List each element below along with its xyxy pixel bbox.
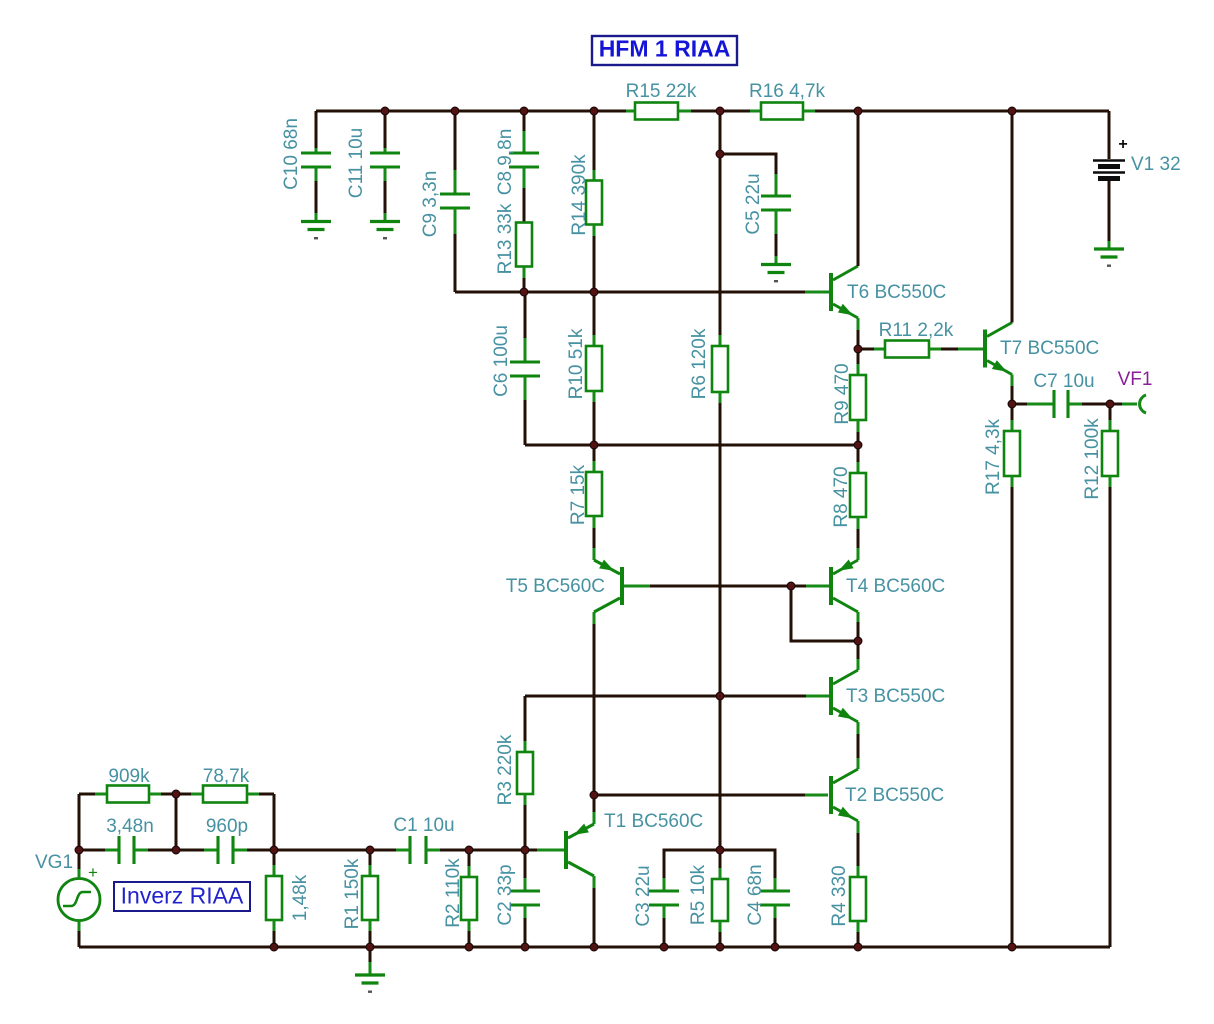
svg-text:V1 32: V1 32	[1131, 154, 1181, 175]
svg-text:R13 33k: R13 33k	[495, 203, 516, 274]
svg-text:R16 4,7k: R16 4,7k	[749, 81, 826, 102]
svg-text:VF1: VF1	[1118, 369, 1153, 390]
svg-text:R11 2,2k: R11 2,2k	[879, 320, 954, 341]
svg-text:R10 51k: R10 51k	[566, 328, 587, 399]
svg-text:+: +	[88, 863, 98, 882]
svg-text:T6 BC550C: T6 BC550C	[847, 282, 946, 303]
svg-text:R7 15k: R7 15k	[568, 464, 589, 525]
svg-text:VG1: VG1	[35, 852, 73, 873]
svg-text:R17 4,3k: R17 4,3k	[983, 418, 1004, 495]
svg-text:1,48k: 1,48k	[290, 874, 311, 921]
svg-text:960p: 960p	[206, 816, 248, 837]
svg-text:C10 68n: C10 68n	[281, 118, 302, 190]
svg-text:R3 220k: R3 220k	[495, 734, 516, 805]
svg-text:R8 470: R8 470	[831, 466, 852, 527]
svg-text:+: +	[1118, 136, 1127, 153]
svg-text:C5 22u: C5 22u	[743, 173, 764, 234]
svg-text:Inverz RIAA: Inverz RIAA	[121, 883, 244, 909]
svg-text:C9 3,3n: C9 3,3n	[420, 171, 441, 238]
svg-text:T2 BC550C: T2 BC550C	[845, 785, 944, 806]
svg-text:C7 10u: C7 10u	[1033, 371, 1094, 392]
svg-text:R6 120k: R6 120k	[689, 328, 710, 399]
svg-text:T7 BC550C: T7 BC550C	[1000, 338, 1099, 359]
svg-text:3,48n: 3,48n	[106, 816, 154, 837]
svg-text:R12 100k: R12 100k	[1082, 418, 1103, 500]
svg-text:C2 33p: C2 33p	[495, 864, 516, 925]
svg-text:C8 9,8n: C8 9,8n	[495, 129, 516, 196]
svg-text:HFM 1 RIAA: HFM 1 RIAA	[599, 36, 731, 62]
svg-text:78,7k: 78,7k	[203, 766, 250, 787]
svg-text:909k: 909k	[108, 766, 150, 787]
svg-text:T5 BC560C: T5 BC560C	[506, 576, 605, 597]
svg-text:T4 BC560C: T4 BC560C	[846, 576, 945, 597]
svg-text:R9 470: R9 470	[832, 363, 853, 424]
svg-text:T3 BC550C: T3 BC550C	[846, 686, 945, 707]
svg-text:R4 330: R4 330	[829, 865, 850, 926]
svg-text:C6 100u: C6 100u	[491, 325, 512, 397]
svg-text:C4 68n: C4 68n	[745, 864, 766, 925]
svg-text:C1 10u: C1 10u	[393, 815, 454, 836]
svg-text:C3 22u: C3 22u	[633, 865, 654, 926]
svg-text:C11 10u: C11 10u	[346, 128, 367, 198]
svg-text:T1 BC560C: T1 BC560C	[604, 811, 703, 832]
svg-text:R5 10k: R5 10k	[688, 864, 709, 925]
svg-text:R14 390k: R14 390k	[569, 154, 590, 236]
svg-text:R2 110k: R2 110k	[443, 858, 464, 928]
svg-text:R15 22k: R15 22k	[626, 81, 697, 102]
svg-text:R1 150k: R1 150k	[342, 858, 363, 929]
